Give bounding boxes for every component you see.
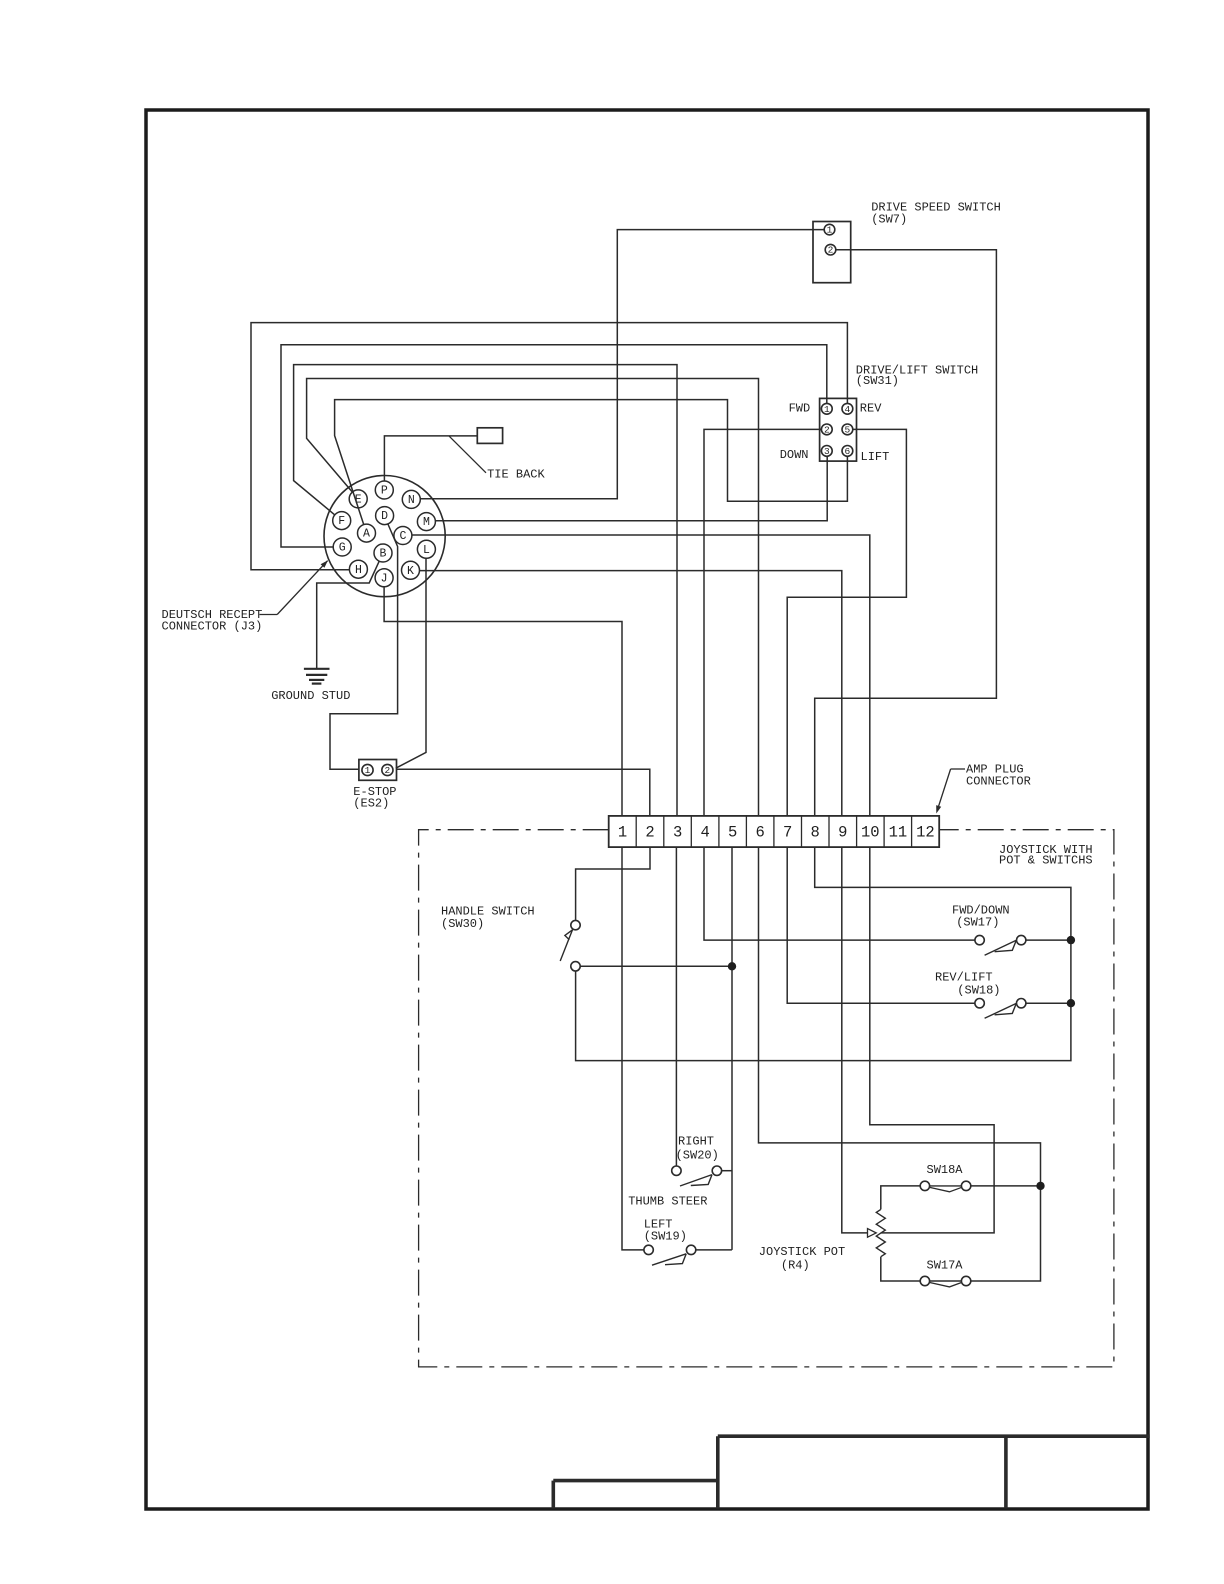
E-STOP body — [359, 760, 397, 781]
leader TIE BACK — [449, 436, 486, 473]
SW17A right terminal — [961, 1276, 970, 1285]
svg-text:9: 9 — [838, 824, 847, 842]
wire strip5 to thumb steer loop — [731, 847, 733, 1250]
svg-text:CONNECTOR: CONNECTOR — [966, 774, 1031, 788]
title block divider — [1004, 1436, 1008, 1508]
svg-text:2: 2 — [385, 765, 391, 776]
SW20 left terminal — [672, 1166, 681, 1175]
svg-text:P: P — [381, 485, 388, 498]
svg-text:(SW19): (SW19) — [644, 1229, 687, 1243]
junction dot SW18 — [1067, 999, 1075, 1007]
J3 pin C — [394, 527, 412, 545]
SW18 lever — [985, 1003, 1017, 1018]
wire E-STOP pin2 to strip pin2 — [397, 769, 650, 816]
svg-text:1: 1 — [827, 225, 833, 236]
label DOWN — [780, 448, 809, 462]
svg-text:K: K — [407, 565, 414, 578]
SW7 pin 1 — [824, 224, 835, 235]
svg-text:REV: REV — [860, 402, 882, 416]
label REV/LIFT (SW18) — [935, 971, 1001, 998]
svg-text:(SW30): (SW30) — [441, 917, 484, 931]
svg-text:1: 1 — [618, 824, 627, 842]
SW18 right terminal — [1017, 999, 1026, 1008]
wire M to SW31 pin3 — [435, 456, 827, 520]
svg-text:12: 12 — [916, 824, 935, 842]
svg-text:LIFT: LIFT — [861, 450, 890, 464]
svg-text:C: C — [399, 530, 406, 543]
J3 pin D — [376, 507, 394, 525]
svg-text:POT & SWITCHS: POT & SWITCHS — [999, 854, 1093, 868]
svg-text:(SW18): (SW18) — [957, 983, 1000, 997]
svg-text:B: B — [380, 548, 387, 561]
wire D to E-STOP pin1 — [330, 524, 398, 769]
svg-text:(SW17): (SW17) — [956, 915, 999, 929]
svg-text:8: 8 — [811, 824, 820, 842]
svg-text:(SW20): (SW20) — [676, 1149, 719, 1163]
junction dot SW17 — [1067, 936, 1075, 944]
svg-text:SW18A: SW18A — [927, 1163, 964, 1177]
SW31 pin 3 — [821, 446, 832, 457]
ground symbol — [304, 669, 330, 684]
SW31 pin 1 — [821, 403, 832, 414]
wire H to SW31 pin4 — [251, 323, 847, 570]
svg-text:L: L — [423, 544, 430, 557]
J3 pin N — [402, 490, 420, 508]
svg-text:5: 5 — [728, 824, 737, 842]
label SW17A — [927, 1258, 964, 1272]
wire strip9 to pot wiper — [842, 847, 868, 1233]
wire SW7 pin2 to strip pin8 — [815, 250, 997, 816]
label TIE BACK — [487, 467, 545, 481]
wire strip1 to SW19 — [622, 847, 644, 1250]
label LIFT — [861, 450, 890, 464]
svg-text:2: 2 — [824, 424, 830, 435]
label E-STOP (ES2) — [353, 785, 396, 810]
SW31 pin 5 — [842, 424, 853, 435]
wire strip3 to SW20 — [675, 847, 677, 1166]
svg-text:3: 3 — [673, 824, 682, 842]
J3 pin M — [417, 513, 435, 531]
SW30 top terminal — [571, 920, 580, 929]
label DEUTSCH RECEPT CONNECTOR (J3) — [162, 608, 263, 634]
svg-text:5: 5 — [845, 424, 851, 435]
label AMP PLUG CONNECTOR — [966, 763, 1031, 789]
pot R4 body zigzag — [876, 1209, 885, 1256]
svg-text:H: H — [355, 564, 362, 577]
wire SW31 pin5 to strip pin7 — [787, 429, 906, 816]
pot wiper arrow — [868, 1229, 877, 1238]
E-STOP pin 1 — [362, 764, 373, 776]
wire strip7 to SW18 — [787, 847, 975, 1003]
wire strip10 to pot mid tap — [870, 847, 994, 1233]
J3 pin E — [349, 490, 367, 508]
svg-text:6: 6 — [756, 824, 765, 842]
svg-text:GROUND STUD: GROUND STUD — [271, 689, 350, 703]
label FWD — [789, 402, 811, 416]
E-STOP pin 2 — [382, 764, 393, 776]
svg-text:4: 4 — [845, 404, 851, 415]
wire K to strip pin9 — [420, 571, 842, 816]
AMP plug connector strip pins 1-12 — [609, 816, 940, 847]
wire SW18A to junction — [971, 1185, 1041, 1187]
svg-text:1: 1 — [824, 404, 830, 415]
SW17 left terminal — [975, 935, 984, 944]
J3 pin J — [375, 569, 393, 587]
label JOYSTICK WITH POT & SWITCHS — [999, 843, 1093, 868]
switch SW7 body — [813, 222, 851, 283]
J3 pin H — [349, 560, 367, 578]
svg-text:D: D — [381, 510, 388, 523]
switch SW31 body — [820, 398, 857, 461]
SW7 pin 2 — [825, 244, 836, 255]
wire SW17 right to bus — [1026, 939, 1071, 941]
label JOYSTICK POT (R4) — [759, 1245, 845, 1272]
svg-text:2: 2 — [828, 245, 834, 256]
svg-text:N: N — [408, 494, 415, 507]
svg-text:SW17A: SW17A — [927, 1258, 964, 1272]
svg-text:JOYSTICK POT: JOYSTICK POT — [759, 1245, 845, 1259]
label HANDLE SWITCH (SW30) — [441, 904, 535, 931]
J3 pin K — [402, 561, 420, 579]
wire strip2 to SW30 top — [576, 847, 650, 920]
svg-text:THUMB STEER: THUMB STEER — [628, 1194, 707, 1208]
connector J3 outline — [324, 475, 445, 596]
svg-text:(SW31): (SW31) — [856, 374, 899, 388]
label DRIVE SPEED SWITCH (SW7) — [871, 201, 1001, 227]
wire J to strip pin1 — [384, 587, 622, 816]
wire E to strip pin6 — [307, 379, 759, 816]
SW17A left terminal — [920, 1276, 929, 1285]
svg-text:1: 1 — [365, 765, 371, 776]
title block main box — [718, 1436, 1150, 1508]
label DRIVE/LIFT SWITCH (SW31) — [856, 363, 978, 388]
J3 pin B — [374, 544, 392, 562]
J3 pin A — [358, 524, 376, 542]
SW18A closed contact — [929, 1186, 962, 1192]
SW20 right terminal — [712, 1166, 721, 1175]
wire strip4 to SW17 — [704, 847, 975, 940]
svg-text:J: J — [381, 572, 388, 585]
label LEFT (SW19) — [644, 1218, 687, 1244]
wire P to tie back — [384, 436, 477, 481]
label RIGHT (SW20) — [676, 1135, 719, 1163]
junction dot SW18A — [1036, 1182, 1044, 1190]
J3 pin L — [417, 540, 435, 558]
wire pot bottom to SW17A — [881, 1257, 921, 1281]
wire L to E-STOP pin2 — [396, 558, 426, 768]
svg-text:A: A — [363, 528, 370, 541]
svg-text:DOWN: DOWN — [780, 448, 809, 462]
wire SW30 bottom to junction — [580, 965, 732, 967]
SW18A left terminal — [920, 1181, 929, 1190]
SW20 lever — [680, 1175, 712, 1186]
SW30 bottom terminal — [571, 962, 580, 971]
joystick enclosure dashed box — [419, 830, 1114, 1367]
wire F to strip pin3 — [294, 365, 677, 816]
wire SW20 right to loop — [722, 1170, 733, 1172]
J3 pin F — [333, 512, 351, 530]
svg-text:7: 7 — [783, 824, 792, 842]
wire A to SW31 pin6 — [335, 400, 848, 525]
label REV — [860, 402, 882, 416]
svg-text:6: 6 — [845, 446, 851, 457]
wire N to SW7 pin1 — [420, 230, 824, 499]
SW19 right terminal — [686, 1245, 695, 1254]
SW17A closed contact — [929, 1281, 962, 1287]
wire strip6 to SW17A/SW18A junction — [759, 847, 1041, 1281]
SW17 right terminal — [1017, 935, 1026, 944]
wire G to SW31 pin1 — [281, 345, 827, 547]
label FWD/DOWN (SW17) — [952, 903, 1010, 929]
SW19 lever — [652, 1254, 686, 1265]
wire pot top to SW18A — [881, 1186, 921, 1210]
wire strip8 loop to SW30 bottom — [576, 847, 1071, 1061]
wire SW31 pin2 to strip pin4 — [704, 429, 821, 816]
leader to J3 — [260, 560, 329, 614]
page frame border — [146, 110, 1148, 1509]
svg-text:(R4): (R4) — [781, 1258, 810, 1272]
svg-text:G: G — [339, 542, 346, 555]
leader AMP PLUG — [936, 769, 965, 814]
svg-text:10: 10 — [861, 824, 880, 842]
SW31 pin 4 — [842, 403, 853, 414]
label GROUND STUD — [271, 689, 350, 703]
svg-text:(SW7): (SW7) — [871, 212, 907, 226]
svg-text:4: 4 — [700, 824, 709, 842]
svg-text:2: 2 — [645, 824, 654, 842]
wire SW19 right to loop — [696, 1249, 732, 1251]
svg-text:FWD: FWD — [789, 402, 811, 416]
SW31 pin 6 — [842, 446, 853, 457]
label THUMB STEER — [628, 1194, 707, 1208]
svg-text:11: 11 — [889, 824, 908, 842]
svg-text:(ES2): (ES2) — [353, 797, 389, 811]
label SW18A — [927, 1163, 964, 1177]
SW17 lever — [985, 940, 1017, 955]
wire SW18 right to bus — [1026, 1002, 1071, 1004]
SW18A right terminal — [961, 1181, 970, 1190]
tie back block — [477, 428, 502, 444]
svg-text:RIGHT: RIGHT — [678, 1135, 714, 1149]
svg-text:3: 3 — [824, 446, 830, 457]
svg-text:TIE BACK: TIE BACK — [487, 467, 545, 481]
SW30 lever — [560, 930, 572, 961]
SW19 left terminal — [644, 1245, 653, 1254]
wire C to strip pin10 — [412, 535, 870, 816]
title block small box — [553, 1481, 718, 1509]
wire B to ground — [317, 561, 380, 669]
svg-text:CONNECTOR (J3): CONNECTOR (J3) — [162, 619, 263, 633]
svg-text:F: F — [338, 515, 345, 528]
SW18 left terminal — [975, 999, 984, 1008]
J3 pin P — [375, 481, 393, 499]
svg-text:M: M — [423, 516, 430, 529]
SW31 pin 2 — [821, 424, 832, 435]
junction dot pin5 — [728, 962, 736, 970]
J3 pin G — [333, 538, 351, 556]
